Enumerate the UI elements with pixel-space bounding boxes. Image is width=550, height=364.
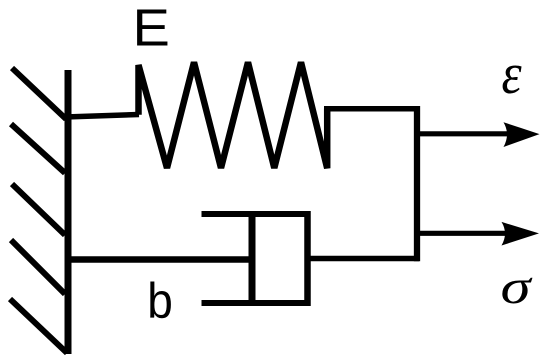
wall hatch 2 (11, 124, 65, 173)
label b (147, 274, 173, 329)
label sigma (501, 260, 533, 314)
wall vertical line (65, 70, 72, 354)
arrow sigma shaft (418, 231, 512, 236)
wall hatch 1 (12, 68, 66, 119)
wall hatch 4 (11, 240, 65, 294)
damper b piston plate (249, 212, 256, 306)
spring E (139, 62, 328, 168)
damper b cylinder top wall (202, 211, 311, 217)
damper b cylinder right wall (304, 211, 311, 306)
rigid bar (right vertical) (414, 106, 420, 261)
arrow epsilon shaft (418, 131, 512, 136)
wall hatch 3 (12, 184, 65, 235)
svg-text:b: b (147, 274, 173, 329)
wire wall to damper piston rod (66, 256, 252, 263)
wall hatch 5 (10, 299, 67, 353)
wire damper to bar (308, 256, 419, 262)
svg-text:E: E (133, 0, 170, 57)
svg-text:ε: ε (502, 41, 523, 106)
wire spring to bar (324, 106, 419, 112)
arrow epsilon head (504, 122, 540, 147)
wire wall to spring (65, 115, 139, 118)
label E (133, 0, 170, 57)
label epsilon (502, 41, 523, 106)
svg-text:σ: σ (501, 260, 533, 314)
arrow sigma head (502, 222, 540, 246)
damper b cylinder bottom wall (202, 300, 311, 306)
